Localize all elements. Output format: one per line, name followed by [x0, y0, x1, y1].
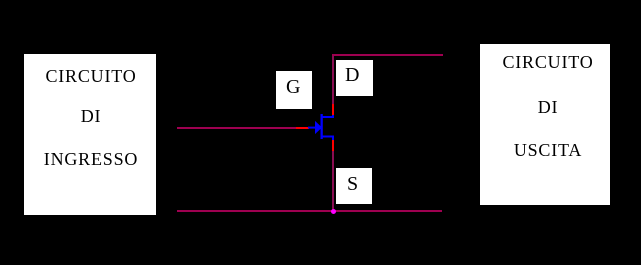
drain pin lead (red)	[332, 104, 334, 115]
source label S	[336, 168, 372, 204]
wire: drain up to top rail (vertical)	[332, 54, 334, 104]
wire: input circuit to gate (horizontal)	[177, 127, 296, 129]
gate lead (red)	[296, 127, 309, 129]
wire: bottom rail (horizontal)	[177, 210, 442, 212]
gate arrow	[315, 121, 322, 134]
drain label D	[336, 60, 373, 96]
transistor Q1 (N-channel FET symbol, blue)	[308, 108, 338, 144]
source pin lead (red)	[332, 140, 334, 151]
input circuit block: CIRCUITO DI INGRESSO	[24, 54, 156, 215]
output circuit block: CIRCUITO DI USCITA	[480, 44, 610, 205]
gate label G	[276, 71, 312, 109]
wire: source down to bottom rail (vertical)	[332, 151, 334, 211]
junction node (magenta dot)	[331, 209, 336, 214]
drain lead arm	[321, 116, 334, 118]
gate stub	[308, 127, 316, 129]
channel bar	[321, 114, 323, 139]
source lead arm	[321, 136, 334, 138]
wire: top rail to output circuit (horizontal)	[332, 54, 443, 56]
